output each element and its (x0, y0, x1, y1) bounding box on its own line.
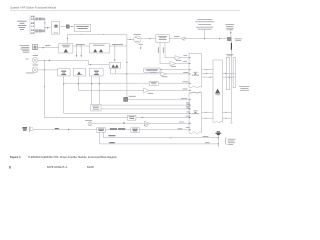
svg-text:6: 6 (9, 166, 11, 170)
arrowhead (81, 55, 82, 57)
opamp U6 label (171, 65, 176, 68)
predriver block box (74, 24, 91, 31)
harmonic filter column 1 (226, 57, 229, 90)
bias block C (89, 69, 103, 77)
predriver block label (76, 26, 89, 29)
driver stage Q1 box (59, 44, 73, 54)
control box small (149, 81, 158, 85)
junction dot on rail (126, 62, 127, 63)
metering box label (92, 106, 99, 110)
arrowhead (130, 39, 132, 40)
wire PA leads to opamp U2 (110, 73, 161, 75)
signal label (183, 54, 187, 57)
arrowhead (114, 60, 115, 62)
bias bus wire (64, 82, 150, 84)
wire label (76, 43, 85, 46)
output connector symbol dark (215, 131, 221, 135)
connector J1 pin-label text block (17, 21, 26, 30)
wire to opamp U5 (165, 57, 175, 59)
keyed wire right (139, 129, 191, 131)
drop to PA transistor box (114, 46, 116, 60)
arrowhead (47, 27, 49, 29)
control logic label (98, 129, 104, 131)
mixer M2 label (26, 65, 38, 74)
control box label (151, 82, 157, 84)
ground return rail (64, 112, 191, 114)
filter capacitor row top (36, 18, 45, 20)
isolator box (156, 35, 169, 43)
brace (225, 138, 227, 145)
opamp U3 label (148, 92, 153, 95)
power sense wires lower (202, 111, 213, 113)
arrowhead (161, 69, 163, 70)
opamp U6 out (176, 63, 189, 65)
arrowhead (68, 129, 70, 130)
junction dot (204, 38, 205, 39)
coupler notch (54, 33, 57, 35)
metering out wire 2 (101, 108, 191, 110)
A+ rail drop into driver (67, 35, 69, 44)
wire coupler to pad (60, 26, 67, 28)
svg-text:6/4/98: 6/4/98 (87, 166, 94, 169)
driver transistor glyph (64, 49, 68, 53)
wire driver to final (73, 45, 90, 47)
strip 2 top squiggle (189, 92, 202, 94)
PA hybrid box (109, 62, 120, 68)
connector bus wire (34, 16, 36, 34)
signal label (181, 97, 187, 100)
thermistor box dark (124, 97, 128, 101)
final stage transistor glyph pair (93, 49, 103, 52)
isolator out wire (169, 38, 182, 40)
signal label (187, 111, 190, 114)
bias feed wire 2 (80, 46, 82, 56)
wire label (150, 71, 157, 74)
thermistor out wire (128, 99, 191, 101)
junction arrow (99, 83, 100, 85)
header rule (10, 10, 240, 12)
opamp U5 label (176, 59, 181, 62)
output connector vertical (217, 135, 219, 147)
antenna line bottom squiggle (230, 122, 232, 125)
bias block A (58, 69, 70, 77)
arrowhead down (140, 48, 141, 50)
text block drop wire (230, 29, 232, 38)
A+ rail top horizontal (68, 34, 127, 36)
junction dot (114, 46, 115, 47)
arrowhead (230, 32, 231, 34)
wire mixer M1 out (38, 59, 88, 61)
bias block B glyph (77, 71, 83, 74)
oscillator internal (135, 37, 140, 38)
opamp U3 (144, 88, 150, 93)
sense vertical from mixers (44, 60, 46, 117)
harmonic filter column labels (226, 54, 233, 56)
junction arrow (63, 83, 64, 85)
wire to coupler (45, 27, 51, 29)
mixer M2 (32, 67, 38, 73)
fwd power wire pair (202, 72, 213, 74)
opamp U2 out wire (167, 73, 189, 75)
bias feed wire 1 (76, 46, 78, 56)
strip glyph 2 (192, 111, 200, 115)
stair label 1 (108, 134, 115, 137)
antenna feed dark segment (230, 43, 232, 50)
junction dot (81, 46, 82, 47)
wire to opamp U6 (160, 63, 170, 65)
signal label (186, 103, 190, 105)
connector J1 pin components column (31, 16, 34, 34)
wire label (174, 35, 179, 38)
arrowhead (150, 38, 152, 39)
svg-text:TLE5942A FLE9049A VHF: Power A: TLE5942A FLE9049A VHF: Power Amplifier M… (28, 155, 117, 159)
A+ wire to driver (37, 47, 58, 49)
junction dot (67, 38, 68, 39)
driver stage label (62, 45, 71, 47)
arrowhead (219, 38, 221, 39)
coupler detector box (128, 115, 136, 120)
bias block B (73, 69, 85, 77)
rotated label marks (158, 47, 164, 53)
junction dot (44, 27, 45, 28)
stair label 1b (203, 135, 209, 138)
bias block A glyph (61, 71, 66, 75)
bias block C glyph (94, 71, 99, 75)
bus label right (183, 80, 189, 83)
interface connector strip section 1 (189, 54, 202, 88)
right side label text block (239, 86, 249, 90)
opamp U2 (161, 72, 167, 76)
filter capacitor row bottom (36, 30, 45, 32)
wire final to rail (109, 45, 127, 47)
A+ label (45, 44, 50, 47)
junction dot (71, 26, 72, 27)
dark wire label (55, 128, 59, 129)
metering box small (91, 104, 101, 111)
block C drops (91, 76, 93, 104)
control logic box (97, 128, 106, 132)
dark tick (123, 122, 125, 124)
temp sense box (144, 68, 160, 72)
junction arrow (91, 83, 92, 85)
interconnect board column (213, 60, 223, 123)
figure caption (10, 155, 117, 159)
connector J1 body line (29, 15, 31, 34)
temp sense out wire (160, 69, 189, 71)
signal label (186, 115, 190, 118)
junction dot (44, 22, 45, 23)
metering out wire 1 (101, 104, 191, 106)
arrow tick on rail (103, 33, 104, 36)
arrowheads into interface strip (189, 57, 191, 131)
text block drop wire (204, 30, 206, 39)
junction arrow (78, 83, 79, 85)
signal label (178, 127, 183, 130)
junction dot (126, 73, 127, 74)
level pot R1 (183, 37, 186, 40)
svg-text:Figure 4: Figure 4 (10, 155, 21, 159)
harmonic filter column 2 (233, 57, 235, 88)
opamp U5 out (181, 57, 189, 59)
junction dot (170, 137, 171, 138)
temp sense label (146, 69, 159, 71)
PA transistor glyph (112, 64, 119, 67)
detector label (129, 116, 135, 118)
wire label (112, 43, 123, 46)
opamp U5 (175, 56, 181, 60)
wire corner to PA input (88, 60, 109, 64)
current sense circle (88, 122, 92, 126)
control wire to keying box (106, 129, 131, 131)
attenuator pad AT1 (66, 25, 69, 28)
sense label (85, 119, 92, 122)
keying box (131, 128, 139, 133)
buffer out wire (149, 122, 191, 124)
wire oscillator to isolator box (141, 38, 156, 40)
J2 connector label dark (22, 127, 27, 130)
junction dot (44, 86, 45, 87)
buffer opamp U4 (144, 121, 149, 125)
junction dot (44, 69, 45, 70)
rev power wire pair (202, 76, 213, 78)
block A drop (63, 76, 65, 113)
wire mixer M2 out (38, 69, 58, 71)
forward detect wire (45, 117, 192, 119)
wire pad to predriver block (69, 26, 74, 28)
TX signal text block (195, 19, 214, 29)
isolator drop verticals with rotated labels (159, 42, 161, 63)
opamp U3 out wire (149, 89, 191, 91)
control input wire (33, 129, 97, 131)
J2 connector symbol (30, 128, 33, 131)
fuse filter F1 (33, 44, 38, 49)
TX oscillator circle (134, 36, 141, 43)
arrowhead (49, 60, 51, 62)
signal label (183, 60, 187, 63)
arrowhead (90, 64, 92, 65)
interconnect glyph (215, 89, 220, 94)
opamp U6 (170, 61, 176, 65)
svg-text:Quantar VHF Station Functional: Quantar VHF Station Functional Manual (10, 6, 56, 10)
interface connector strip section 2 (189, 93, 202, 134)
svg-text:68P81096E25-A: 68P81096E25-A (47, 166, 68, 169)
coupler U1 internal glyph (54, 25, 58, 28)
stair wire 1 (103, 132, 218, 138)
RX signal text block (225, 24, 234, 30)
arrowhead (43, 47, 45, 49)
junction dots stair (218, 137, 219, 138)
arrow tick on rail (81, 33, 82, 36)
13.8V supply text block (20, 45, 29, 52)
signal label (186, 106, 190, 108)
TX out label + arrow (139, 43, 143, 46)
wire pot to coupler (186, 38, 228, 40)
thermistor label (129, 95, 136, 98)
antenna switch box (228, 37, 232, 40)
signal label (183, 71, 188, 74)
PA box lead wires (110, 68, 115, 74)
injection filter mixer M1 (32, 57, 38, 63)
junction dot (44, 60, 45, 61)
signal label (183, 88, 188, 91)
strip glyph RF (192, 72, 200, 76)
coupler U1 box (51, 22, 59, 34)
final stage label (93, 44, 104, 47)
opamp U2 label (162, 75, 168, 78)
dark wire label (110, 128, 125, 129)
brace text (228, 139, 236, 145)
header text (10, 6, 56, 10)
isolator label (158, 36, 167, 40)
junction dot (76, 46, 77, 47)
stair label 2b (205, 141, 210, 144)
wire rail to oscillator (127, 38, 134, 40)
signal label right end (186, 126, 190, 129)
keying box glyph (132, 129, 138, 131)
sense wire (92, 122, 144, 124)
stair label 2 (109, 141, 115, 144)
stair wire 2 (100, 132, 219, 144)
temp wire pair (202, 69, 213, 71)
rail wire right of connector (44, 18, 46, 33)
antenna feed vertical (230, 41, 232, 123)
antenna switch label (235, 39, 242, 42)
oscillator label (133, 33, 140, 36)
block B drop (78, 76, 143, 90)
arrowhead (76, 55, 77, 57)
mixer M1 label (26, 55, 38, 59)
arrowhead (142, 117, 144, 118)
final stage Q2 Q3 box (89, 44, 109, 54)
A+ rail right vertical (126, 35, 128, 98)
signal label (179, 121, 184, 124)
